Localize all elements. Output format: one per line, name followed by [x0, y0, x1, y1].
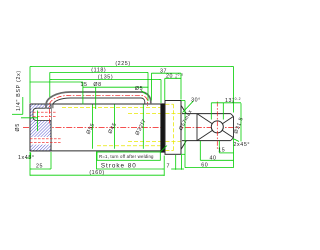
- dim (225): [30, 66, 234, 68]
- dia32 measure line: [142, 105, 144, 149]
- BSP leader: [22, 97, 24, 114]
- dia55 measure line: [92, 105, 94, 149]
- dim 13: [210, 103, 212, 120]
- main centerline: [23, 126, 240, 128]
- rear cap body: [30, 104, 62, 151]
- dim (135): [50, 79, 161, 81]
- dim 7: [171, 168, 184, 170]
- head collar: [165, 101, 181, 155]
- svg-text:15: 15: [80, 82, 87, 88]
- dim (118): [50, 71, 148, 73]
- svg-text:(160): (160): [89, 170, 104, 176]
- dim (160): [30, 174, 164, 176]
- collar bore hidden: [173, 104, 175, 150]
- svg-text:Ø5: Ø5: [15, 123, 21, 132]
- svg-text:(135): (135): [98, 75, 113, 81]
- svg-text:2x45°: 2x45°: [234, 142, 251, 148]
- rod hidden through collar: [166, 113, 181, 115]
- svg-text:(225): (225): [115, 61, 130, 67]
- dim 37: [151, 72, 181, 74]
- lower port passage: [31, 137, 51, 145]
- dia31.5 measure line: [240, 103, 242, 141]
- dim 25: [30, 168, 51, 170]
- svg-text:60: 60: [201, 163, 208, 169]
- 2x45 leader: [234, 139, 239, 142]
- svg-text:25: 25: [36, 163, 43, 169]
- port cavity: [33, 108, 51, 120]
- weld bead: [160, 103, 165, 152]
- dim 40: [200, 159, 233, 161]
- dia45 measure line: [113, 105, 115, 149]
- svg-text:R=1, turn off after welding: R=1, turn off after welding: [99, 154, 154, 159]
- dim 15 right: [219, 152, 233, 154]
- pipe centerline: [49, 95, 147, 123]
- dia8 line: [83, 86, 149, 88]
- dimension texts: [15, 61, 250, 176]
- dim stroke 80: [97, 168, 165, 170]
- pipe inner: [53, 98, 145, 108]
- dia57 measure line: [184, 101, 186, 168]
- svg-text:15: 15: [218, 148, 225, 154]
- rod hidden line bottom: [128, 140, 180, 142]
- svg-text:7: 7: [167, 163, 171, 169]
- svg-text:20: 20: [166, 74, 173, 80]
- clevis hole: [211, 121, 223, 133]
- green dimensions: [12, 67, 241, 177]
- svg-text:1x45°: 1x45°: [18, 155, 35, 161]
- 30deg leader: [183, 101, 194, 113]
- rod cone top: [181, 105, 186, 113]
- rod cone bottom: [181, 141, 186, 150]
- note box: [97, 146, 167, 161]
- dim 15 line: [30, 81, 83, 83]
- bore hidden line top: [62, 106, 160, 108]
- dia5 port measure line: [21, 117, 38, 119]
- port hole hidden lower: [30, 138, 62, 140]
- svg-text:0: 0: [175, 76, 177, 80]
- pipe outer: [46, 92, 151, 109]
- rod: [182, 114, 231, 141]
- dim 60: [185, 167, 234, 169]
- svg-text:Stroke 80: Stroke 80: [101, 163, 137, 170]
- svg-text:(118): (118): [91, 68, 106, 74]
- rod hidden line top: [128, 113, 180, 115]
- svg-text:30°: 30°: [191, 97, 201, 103]
- hole centerline vertical: [216, 102, 218, 151]
- svg-text:0: 0: [232, 100, 235, 104]
- barrel: [30, 104, 161, 151]
- dim 20: [165, 77, 181, 79]
- dia5 pipe leader: [141, 91, 146, 95]
- port hole hidden upper: [33, 111, 57, 113]
- 1x45 leader: [26, 157, 31, 159]
- svg-text:Ø8: Ø8: [93, 82, 101, 88]
- svg-text:1/4" BSP (2x): 1/4" BSP (2x): [16, 70, 22, 111]
- bore hidden line bottom: [97, 145, 160, 147]
- svg-text:40: 40: [209, 155, 216, 161]
- clevis flats: [197, 114, 234, 141]
- svg-text:Ø5: Ø5: [135, 86, 143, 92]
- barrel od hidden in collar: [165, 103, 173, 105]
